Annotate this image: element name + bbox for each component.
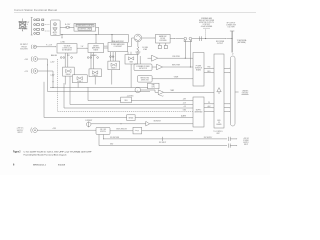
wire attn to driver <box>77 48 88 49</box>
svg-text:T1: T1 <box>22 31 24 33</box>
label fwd pwr <box>172 56 180 58</box>
svg-text:FOR TEST: FOR TEST <box>203 24 210 26</box>
wire bias A vertical <box>47 59 49 92</box>
svg-text:28V SUPPLY: 28V SUPPLY <box>204 137 213 139</box>
bus wire B+ <box>61 34 129 37</box>
svg-text:SUPPLY: SUPPLY <box>243 142 249 144</box>
svg-text:CTRL: CTRL <box>151 87 155 89</box>
wire switch return 2 <box>99 135 227 146</box>
splice tick 28v line <box>162 137 164 141</box>
label interstage 2 <box>104 46 108 48</box>
dc input text label <box>17 128 25 134</box>
wire bus drop to driver <box>96 35 97 44</box>
svg-text:50 OHM: 50 OHM <box>142 47 148 49</box>
trim pot RV5 <box>110 56 114 58</box>
svg-text:L+26V: L+26V <box>50 62 54 64</box>
mains input text label <box>19 21 30 31</box>
svg-text:4 X MOSFET: 4 X MOSFET <box>114 46 123 48</box>
svg-text:28V INPUT: 28V INPUT <box>159 142 166 144</box>
wire C to J2 row3 <box>224 103 230 104</box>
svg-text:RV1: RV1 <box>67 55 70 57</box>
label 28v under line <box>159 142 166 144</box>
svg-text:CONTROLLED: CONTROLLED <box>62 48 72 50</box>
left return vertical 4 <box>70 77 193 105</box>
wire T2 to C row2 <box>204 107 214 108</box>
svg-text:J2: J2 <box>232 54 234 56</box>
label L+26V <box>50 62 54 64</box>
wire T2 to C row1 <box>204 103 214 104</box>
label 1W level <box>46 45 52 47</box>
svg-text:GND: GND <box>110 144 113 146</box>
node bus2 <box>95 34 96 35</box>
rf monitor text label <box>199 17 215 28</box>
svg-text:EXCITER: EXCITER <box>20 49 28 51</box>
wire bus band h1 <box>50 87 148 89</box>
wire A3 drop <box>94 77 96 85</box>
svg-text:FILTER: FILTER <box>160 38 165 40</box>
wire bus drop to PA <box>112 35 113 43</box>
wire coupler fwd drop <box>184 40 186 58</box>
svg-text:RF POWER: RF POWER <box>216 41 225 43</box>
wire PA to circulator <box>128 38 134 47</box>
wire bias B <box>38 70 53 72</box>
wire fuse to control box <box>69 26 74 28</box>
footer <box>13 163 66 166</box>
wire coupler to out <box>192 38 225 40</box>
fan control box U10 <box>148 83 160 89</box>
wire dashed to PSU lower <box>45 30 50 32</box>
wire T1 to C row1 <box>204 68 214 69</box>
fuse F4 row <box>34 33 40 35</box>
wire band d stub <box>86 86 88 88</box>
figure caption <box>13 150 92 156</box>
svg-text:REFLECTED: REFLECTED <box>141 77 150 79</box>
ground symbol chassis <box>235 89 249 94</box>
svg-text:+15V REG: +15V REG <box>127 95 134 97</box>
header text <box>14 9 58 12</box>
trim pot RV3 <box>87 57 91 59</box>
wire C to J2 row2 <box>224 72 230 73</box>
svg-text:+12V: +12V <box>183 103 186 105</box>
connector bars return2 <box>228 144 237 148</box>
svg-text:GND: GND <box>183 110 186 112</box>
svg-text:I/F: I/F <box>218 122 220 124</box>
amplifier stage box A1 <box>63 67 75 76</box>
label B+28V <box>65 24 71 26</box>
bias supply conn B <box>24 71 29 73</box>
label gnd return <box>110 144 113 146</box>
svg-text:CONTROL UNIT: CONTROL UNIT <box>79 29 92 31</box>
filter box U14 <box>133 127 142 134</box>
left return vertical 3 <box>64 83 193 108</box>
refl detector box U9 <box>138 76 153 83</box>
connector bars return1 <box>228 137 237 141</box>
label switching <box>116 129 127 131</box>
fuse F2 row <box>34 24 44 26</box>
wire detector feeds <box>137 56 141 64</box>
label 28V <box>52 128 57 130</box>
svg-text:7/16 TYPE: 7/16 TYPE <box>227 27 234 29</box>
svg-text:INPUT: INPUT <box>17 132 22 134</box>
svg-text:GROUND: GROUND <box>242 92 248 94</box>
wire switch return 1 <box>104 135 227 139</box>
svg-text:L-PA1: L-PA1 <box>60 41 65 44</box>
label to antenna <box>237 39 247 44</box>
wire dc input <box>37 129 96 131</box>
svg-text:SENSE: SENSE <box>128 117 133 119</box>
svg-text:Current Station Functional Man: Current Station Functional Manual <box>14 9 58 12</box>
svg-text:POWER: POWER <box>243 140 248 142</box>
left return vertical 5 <box>88 87 193 100</box>
dc source text label <box>243 138 249 146</box>
trim pot RV1 <box>60 57 64 59</box>
svg-text:SWITCH: SWITCH <box>100 131 106 133</box>
detector op-amp U8 <box>152 64 163 70</box>
directional coupler DC1 <box>184 37 192 41</box>
trim pot RV4 <box>97 57 99 59</box>
label refl pwr <box>172 65 181 67</box>
svg-text:B+ 28V: B+ 28V <box>65 24 71 26</box>
connector J1 rf input <box>31 45 36 49</box>
label temp <box>170 90 174 92</box>
wire A2 drop <box>77 83 79 88</box>
wire circulator load port <box>137 42 139 47</box>
amplifier stage box A3 <box>89 69 101 77</box>
label 28v return <box>110 137 119 139</box>
label row t1c1 <box>208 67 211 69</box>
svg-text:ON / OFF: ON / OFF <box>100 129 106 131</box>
power supply U1 <box>51 20 61 36</box>
node band h1 <box>53 87 54 88</box>
svg-text:PSU: PSU <box>54 34 57 36</box>
bias trim labels row <box>51 54 97 57</box>
wire bias A <box>38 58 48 60</box>
svg-text:Figure 2: Figure 2 <box>13 151 21 153</box>
driver box U4 <box>88 44 104 53</box>
wire arrow to antenna <box>225 38 226 39</box>
svg-text:I MONITOR: I MONITOR <box>153 121 161 123</box>
temp op-amp U12 <box>151 90 164 96</box>
buffer op-amp U15 <box>146 121 193 126</box>
svg-text:Power Amplifier Module Functio: Power Amplifier Module Functional Block … <box>24 153 67 156</box>
svg-text:FWD PWR: FWD PWR <box>172 56 180 58</box>
label vswr <box>174 76 179 78</box>
amplifier stage box A2 <box>72 75 87 83</box>
label interstage 1 <box>81 46 84 48</box>
final PA box U5 <box>108 43 128 52</box>
svg-text:MONITOR: MONITOR <box>195 68 202 70</box>
amplifier stage box A5 <box>125 55 137 65</box>
svg-text:MRN1234-1: MRN1234-1 <box>33 164 47 166</box>
left return vertical 2 <box>58 59 194 112</box>
wire C to J2 row1 <box>224 68 230 69</box>
svg-text:REFLECTED POWER: REFLECTED POWER <box>199 20 215 22</box>
test point TP1 <box>158 43 161 49</box>
svg-text:DRIVER: DRIVER <box>93 45 98 47</box>
wire driver to PA <box>104 48 108 49</box>
transformer T1 <box>19 19 27 33</box>
antenna feed line <box>230 31 234 53</box>
antenna connector text label <box>226 23 237 29</box>
connector bars rf module output <box>199 36 201 41</box>
svg-text:+28V: +28V <box>183 99 186 101</box>
regulator box U16 <box>121 95 134 102</box>
label L+28V lower <box>50 75 54 77</box>
label rf power out <box>216 41 225 45</box>
tall box T1 telemetry <box>193 53 204 87</box>
svg-text:POWER: POWER <box>196 66 201 68</box>
trim pot RV2 <box>71 57 73 59</box>
svg-text:POWER SUPPLY CONTROL: POWER SUPPLY CONTROL <box>77 25 94 27</box>
wire rf monitor stub <box>205 30 207 39</box>
svg-text:DETECTOR: DETECTOR <box>141 79 149 81</box>
wire stage4 feeds <box>128 52 131 55</box>
svg-text:MONITOR OUTPUTS: MONITOR OUTPUTS <box>199 22 214 24</box>
label L-PA1 <box>60 41 65 44</box>
wire stage3 feeds <box>111 52 116 61</box>
bias supply conn A <box>24 59 29 61</box>
amplifier stage box A4 <box>108 61 120 70</box>
current sensor CS1 <box>85 120 145 127</box>
wire bus drop to L-PA1 <box>62 35 63 39</box>
node rf mon tap <box>205 38 206 39</box>
wire A4 drop <box>111 70 113 85</box>
label J2 <box>232 54 234 56</box>
wire coupler refl drop <box>189 40 191 67</box>
svg-text:OUTPUT: OUTPUT <box>217 43 223 45</box>
node coupler tap refl <box>190 66 191 67</box>
wire control box out <box>96 27 99 34</box>
svg-text:SUPPLY: SUPPLY <box>196 110 202 112</box>
connector bracket X1 <box>31 18 33 36</box>
arrow bias A down <box>46 65 49 66</box>
wire fwd detector out <box>158 57 193 59</box>
label row t2c1 <box>208 102 210 104</box>
node bus3 <box>111 34 112 35</box>
wire bias B vertical <box>52 71 54 88</box>
interface tall box C <box>214 54 224 128</box>
svg-text:TEMP: TEMP <box>170 90 174 92</box>
svg-text:MOD: MOD <box>217 120 220 122</box>
svg-text:TO CONTROL: TO CONTROL <box>213 131 223 133</box>
labels supply rows <box>181 99 187 118</box>
temp sensor TH1 <box>135 87 151 93</box>
wire A5 drop <box>130 64 132 88</box>
connector J3 dc input <box>31 128 38 133</box>
label PA above <box>112 40 124 43</box>
fuse F3 row <box>34 29 44 31</box>
node return 1 <box>103 138 104 139</box>
wire T2 to C row3 <box>204 111 214 112</box>
wire refl box out <box>152 78 193 80</box>
svg-text:PS: PS <box>208 102 210 104</box>
node bus1 <box>61 34 62 35</box>
svg-text:8/2008: 8/2008 <box>58 164 66 166</box>
control unit box U2 <box>74 23 96 31</box>
svg-text:CTU 1kW/TTU2N D: 625 1 kW UHF: CTU 1kW/TTU2N D: 625 1 kW UHF and TTU8N/… <box>24 150 93 153</box>
label to control unit <box>213 131 223 135</box>
wire refl detector out <box>163 66 193 68</box>
svg-text:INPUT: INPUT <box>244 144 248 146</box>
arrow bias B down <box>52 76 55 77</box>
rf input text label <box>20 44 28 50</box>
wire circulator to filter <box>142 38 156 39</box>
test point TP2 <box>164 43 167 49</box>
wire stage1 feeds <box>65 53 68 67</box>
svg-text:REFL: REFL <box>207 71 211 73</box>
svg-text:DETECTOR: DETECTOR <box>139 68 147 70</box>
wire rf in <box>37 46 57 47</box>
svg-text:SWITCHED 28V: SWITCHED 28V <box>116 129 127 131</box>
label row t1c2 <box>207 71 211 73</box>
wire C to J2 row4 <box>224 107 230 108</box>
wire dashed to PSU upper <box>45 24 50 26</box>
fwd detector box U7 <box>134 64 152 71</box>
svg-text:L+28V: L+28V <box>50 75 54 77</box>
svg-text:FWD: FWD <box>208 67 211 69</box>
wire temp out <box>164 91 214 93</box>
label 28v supply right <box>204 137 213 139</box>
wire A1 drop <box>64 76 66 84</box>
wire switch out <box>110 130 133 132</box>
wire filter out <box>142 130 193 132</box>
svg-text:RF OUTPUT: RF OUTPUT <box>227 23 236 25</box>
load resistor R1 <box>135 47 140 54</box>
node monitor junction <box>121 123 122 124</box>
wire C to J2 row5 <box>224 111 230 112</box>
wire B+28V <box>60 26 66 28</box>
circulator CR1 <box>134 34 142 42</box>
svg-text:UNIT: UNIT <box>216 133 219 135</box>
connector J2 column <box>231 56 236 126</box>
wire stage2 feeds <box>91 53 94 69</box>
wire T1 to C row2 <box>204 72 214 73</box>
header rule <box>14 12 256 14</box>
fuse F1 row <box>34 19 44 21</box>
attenuator box U3 <box>57 44 77 53</box>
wire box on line <box>127 115 135 121</box>
switch box U13 <box>96 127 110 134</box>
label 50ohm <box>142 47 148 51</box>
svg-text:CONNECTOR: CONNECTOR <box>226 25 237 27</box>
svg-text:28V RETURN: 28V RETURN <box>110 137 119 139</box>
svg-text:+5V: +5V <box>183 106 186 108</box>
wire bus band h2 <box>48 91 151 93</box>
svg-text:P = 1 W: P = 1 W <box>46 45 52 47</box>
detector op-amp U6 <box>148 55 158 61</box>
label row t2c2 <box>208 105 211 108</box>
harmonic filter FL1 <box>156 34 171 43</box>
wire filter out <box>170 38 184 39</box>
svg-text:REFL PWR: REFL PWR <box>172 65 181 67</box>
tall box T2 supply interface <box>193 97 204 127</box>
node coupler tap fwd <box>185 58 186 59</box>
left return vertical 1 <box>44 82 193 118</box>
fuse F5 inline <box>66 26 69 28</box>
node antenna junction <box>232 38 233 39</box>
svg-text:+28V DC: +28V DC <box>243 138 249 140</box>
wire bus end drop <box>128 35 130 43</box>
